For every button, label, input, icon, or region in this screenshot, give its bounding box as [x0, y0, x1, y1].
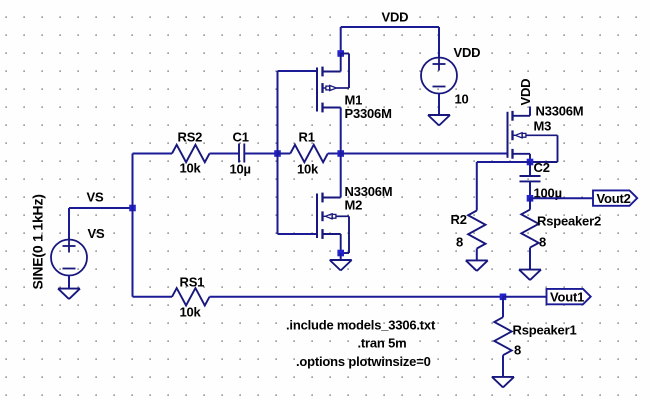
svg-text:RS2: RS2	[178, 130, 203, 145]
wire C2 bottom	[529, 181, 531, 198]
svg-text:10k: 10k	[180, 161, 202, 176]
wire Vout1 stub	[503, 296, 547, 298]
wire RS2 left	[133, 153, 173, 155]
svg-text:8: 8	[539, 235, 546, 250]
wire RS1 to Vout1	[210, 296, 504, 298]
svg-text:.tran 5m: .tran 5m	[358, 336, 407, 351]
wire VDD source top	[438, 27, 440, 58]
wire Rspeaker1 bottom	[502, 355, 504, 377]
svg-text:VS: VS	[87, 190, 104, 205]
ground Rspeaker2	[519, 269, 541, 271]
svg-text:R2: R2	[451, 212, 467, 227]
resistor Rspeaker1	[494, 317, 511, 355]
svg-text:VDD: VDD	[518, 79, 533, 106]
svg-text:10k: 10k	[180, 305, 202, 320]
voltage source VDD	[421, 58, 457, 94]
wire M1 source drop	[340, 27, 342, 54]
ground R2	[466, 259, 488, 261]
wire VDD rail	[341, 26, 439, 28]
wire gate loop bottom	[278, 233, 318, 235]
wire M2 drain	[340, 154, 342, 198]
resistor RS1	[172, 288, 210, 305]
transistor M2 NMOS	[316, 194, 318, 239]
node Vout2 junction	[527, 195, 534, 202]
wire R1 left stub	[278, 153, 291, 155]
wire C1 to node	[244, 153, 277, 155]
resistor RS2	[172, 145, 210, 162]
node gate bias junction	[274, 150, 281, 157]
wire R1 right stub	[328, 153, 341, 155]
wire C2 top	[529, 162, 531, 176]
svg-text:Vout1: Vout1	[550, 289, 584, 304]
resistor Rspeaker2	[521, 210, 538, 248]
transistor M1 PMOS	[316, 68, 318, 112]
flag Vout2	[593, 190, 637, 205]
ground M2	[330, 259, 352, 261]
svg-text:VDD: VDD	[454, 45, 481, 60]
wire Rspeaker1 top	[502, 297, 504, 317]
node M1 source junction	[337, 50, 344, 57]
svg-text:P3306M: P3306M	[345, 106, 392, 121]
svg-text:.options plotwinsize=0: .options plotwinsize=0	[296, 354, 431, 369]
svg-text:M3: M3	[534, 119, 552, 134]
svg-text:10k: 10k	[297, 162, 319, 177]
svg-text:Vout2: Vout2	[597, 191, 631, 206]
capacitor C1	[238, 144, 240, 163]
node M3 source junction	[527, 159, 534, 166]
svg-text:8: 8	[514, 343, 521, 358]
svg-text:.include models_3306.txt: .include models_3306.txt	[286, 318, 436, 333]
wire gate loop vertical	[277, 71, 279, 234]
wire VDD source bottom	[438, 93, 440, 115]
node M2 source junction	[337, 250, 344, 257]
svg-text:SINE(0 1 1kHz): SINE(0 1 1kHz)	[30, 194, 46, 289]
node inverter output junction	[337, 150, 344, 157]
wire VS source bottom	[68, 275, 70, 288]
voltage source VS	[51, 240, 87, 276]
wire Rspeaker2 bottom	[529, 248, 531, 270]
wire VS top horizontal	[69, 207, 133, 209]
node VS junction	[129, 205, 136, 212]
svg-text:10: 10	[455, 92, 469, 107]
transistor M3 NMOS	[507, 112, 509, 158]
ground VDD source	[428, 114, 450, 116]
wire M3 drain riser	[529, 107, 531, 116]
resistor R1	[290, 145, 328, 162]
node Vout1 junction	[500, 294, 507, 301]
flag Vout1	[547, 289, 591, 304]
svg-text:R1: R1	[299, 130, 315, 145]
resistor R2	[468, 211, 485, 249]
wire RS1 left	[133, 296, 173, 298]
wire R2 bottom	[476, 249, 478, 261]
wire RS2 to C1	[210, 153, 240, 155]
svg-text:VDD: VDD	[382, 10, 409, 25]
wire Rspeaker2 top	[529, 198, 531, 209]
svg-text:RS1: RS1	[180, 275, 205, 290]
wire VS source top	[68, 208, 70, 240]
capacitor C2	[520, 175, 541, 177]
svg-text:8: 8	[456, 235, 463, 250]
wire gate loop top	[278, 70, 318, 72]
svg-text:10µ: 10µ	[230, 162, 251, 177]
wire left vertical bus	[132, 154, 134, 297]
svg-text:C2: C2	[534, 160, 550, 175]
svg-text:N3306M: N3306M	[536, 104, 584, 119]
wire R2 top horizontal	[477, 161, 530, 163]
svg-text:VS: VS	[88, 226, 105, 241]
wire to Vout2 flag	[530, 197, 593, 199]
wire M2 source to ground	[340, 253, 342, 260]
svg-text:Rspeaker2: Rspeaker2	[537, 214, 601, 229]
svg-text:M2: M2	[345, 198, 363, 213]
ground VS	[58, 288, 80, 290]
svg-text:Rspeaker1: Rspeaker1	[513, 323, 577, 338]
wire inverter out to M3 gate	[341, 153, 508, 155]
svg-text:C1: C1	[233, 130, 249, 145]
ground Rspeaker1	[492, 376, 514, 378]
wire R2 top vertical	[476, 162, 478, 211]
wire M1 drain	[340, 108, 342, 154]
